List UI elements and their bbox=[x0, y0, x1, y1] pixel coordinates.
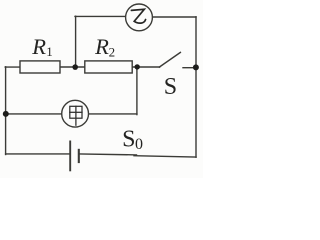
wire: switch S blade bbox=[159, 52, 180, 67]
wire: left vertical to meter 甲 bbox=[6, 113, 62, 115]
wire: bottom left segment battery to corner bbox=[6, 153, 71, 155]
battery: short plate bbox=[78, 149, 80, 163]
wire: meter 甲 to right riser bbox=[89, 113, 137, 115]
svg-text:R: R bbox=[31, 34, 46, 59]
node B junction dot (right rail / switch) bbox=[193, 64, 199, 70]
svg-text:1: 1 bbox=[46, 44, 53, 59]
node A junction dot (R1/R2/branch) bbox=[72, 64, 78, 70]
wire: bottom right segment (closed switch S0 kink) bbox=[134, 156, 196, 157]
wire: right vertical bbox=[195, 17, 197, 157]
wire: meter 乙 to top-right corner bbox=[152, 16, 196, 18]
wire: left to resistor R1 bbox=[5, 66, 20, 68]
wire: riser up to node C bbox=[136, 67, 138, 115]
meter 甲 circle bbox=[62, 100, 89, 127]
wire: top-left vertical from corner down to node A bbox=[75, 16, 77, 67]
svg-text:2: 2 bbox=[109, 44, 116, 59]
wire: R1 to R2 through node A bbox=[60, 66, 85, 68]
node D junction dot (left rail / meter branch) bbox=[3, 111, 9, 117]
wire: bottom middle segment bbox=[79, 154, 136, 155]
meter 甲 glyph bbox=[70, 106, 82, 125]
wire: R2 to switch pivot bbox=[132, 66, 159, 68]
meter 乙 glyph bbox=[131, 9, 145, 23]
svg-text:S: S bbox=[122, 127, 135, 153]
battery: long plate bbox=[69, 141, 71, 172]
resistor R1 bbox=[20, 61, 60, 73]
svg-text:R: R bbox=[94, 34, 109, 59]
node C junction dot (right of R2) bbox=[135, 64, 140, 69]
svg-text:S: S bbox=[164, 74, 177, 100]
meter 乙 circle bbox=[126, 4, 153, 31]
svg-text:0: 0 bbox=[135, 136, 143, 153]
wire: switch right stub to node B bbox=[183, 67, 196, 69]
wire: left vertical bbox=[5, 67, 7, 155]
wire: top horizontal to meter 乙 bbox=[75, 15, 126, 17]
resistor R2 bbox=[85, 61, 132, 73]
